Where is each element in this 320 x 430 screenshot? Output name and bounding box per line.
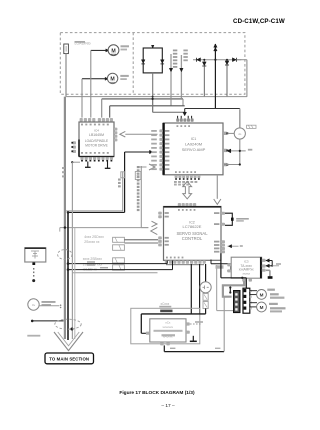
svg-text:xxxx 2SBxxx: xxxx 2SBxxx — [83, 257, 103, 261]
svg-text:xCx: xCx — [165, 320, 171, 324]
svg-text:IC1: IC1 — [191, 137, 197, 141]
svg-text:Figure 17 BLOCK DIAGRAM (1/3): Figure 17 BLOCK DIAGRAM (1/3) — [119, 390, 195, 396]
svg-text:MOTOR DRIVE: MOTOR DRIVE — [85, 144, 107, 148]
svg-text:LA9240M: LA9240M — [185, 141, 202, 146]
svg-text:TO MAIN SECTION: TO MAIN SECTION — [49, 357, 89, 362]
svg-text:SERVO AMP: SERVO AMP — [182, 147, 206, 152]
svg-text:do: do — [238, 132, 242, 136]
svg-text:xxxxx: xxxxx — [242, 271, 250, 275]
svg-text:LOAD/SPINDLE: LOAD/SPINDLE — [85, 139, 108, 143]
svg-text:4xxx 2SDxxx: 4xxx 2SDxxx — [84, 235, 104, 239]
svg-text:M: M — [260, 292, 264, 297]
svg-text:xCxxx: xCxxx — [161, 302, 170, 306]
svg-text:2Sxxxx xx: 2Sxxxx xx — [84, 240, 100, 244]
svg-text:CONTROL: CONTROL — [182, 236, 203, 241]
svg-text:xxxxxxx: xxxxxxx — [163, 325, 174, 329]
svg-text:4v: 4v — [32, 303, 36, 307]
svg-text:– 17 –: – 17 – — [161, 403, 175, 409]
svg-text:LB1645M: LB1645M — [89, 133, 104, 137]
svg-text:CD-C1W,CP-C1W: CD-C1W,CP-C1W — [233, 18, 285, 25]
svg-text:IC4: IC4 — [94, 128, 99, 132]
svg-text:M: M — [110, 77, 114, 83]
svg-text:LC78622E: LC78622E — [183, 224, 202, 229]
svg-text:IC3: IC3 — [244, 259, 249, 263]
svg-text:M: M — [260, 305, 264, 310]
svg-text:M: M — [111, 48, 115, 54]
